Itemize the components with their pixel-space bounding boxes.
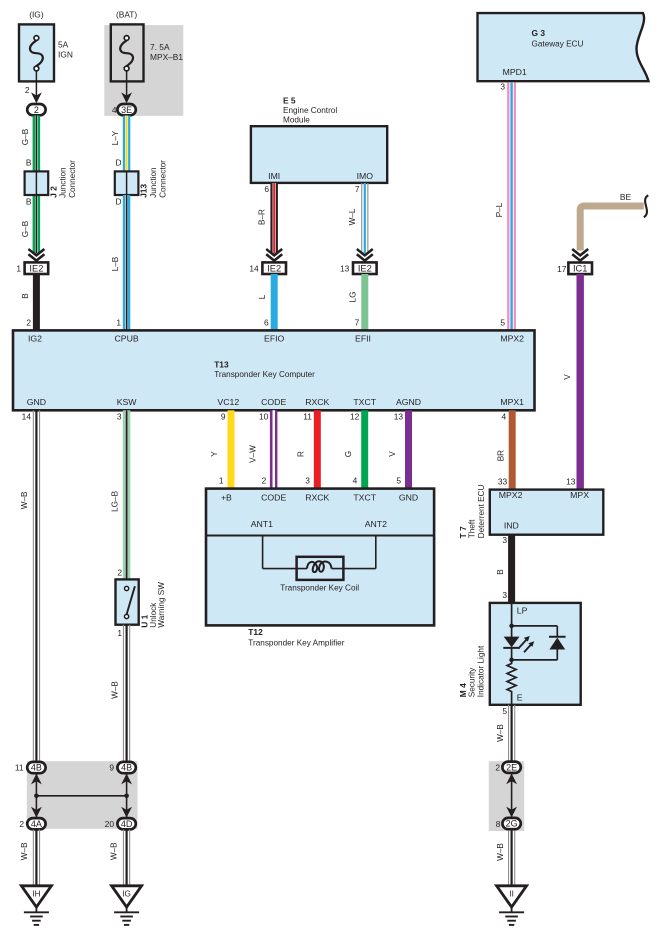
svg-text:2: 2 [117, 568, 122, 578]
svg-text:CPUB: CPUB [115, 333, 139, 343]
svg-text:W–B: W–B [20, 842, 29, 860]
svg-text:9: 9 [221, 412, 226, 422]
svg-text:J 2: J 2 [48, 186, 58, 198]
svg-text:Engine Control: Engine Control [283, 106, 337, 115]
svg-text:13: 13 [340, 263, 350, 273]
svg-text:5: 5 [502, 706, 507, 716]
svg-text:IND: IND [504, 521, 519, 531]
svg-text:Junction: Junction [149, 167, 158, 198]
svg-text:B–R: B–R [258, 209, 267, 225]
svg-text:2: 2 [26, 318, 31, 328]
svg-text:2E: 2E [506, 763, 517, 773]
svg-text:4A: 4A [31, 819, 42, 829]
svg-text:7: 7 [355, 184, 360, 194]
svg-text:12: 12 [350, 412, 360, 422]
svg-text:V: V [563, 374, 572, 380]
svg-text:5: 5 [500, 318, 505, 328]
svg-text:Connector: Connector [68, 160, 77, 198]
svg-text:E 5: E 5 [283, 95, 296, 105]
svg-text:MPX2: MPX2 [499, 490, 523, 500]
svg-text:10: 10 [259, 412, 269, 422]
svg-text:7: 7 [355, 318, 360, 328]
svg-text:T12: T12 [248, 627, 263, 637]
svg-text:33: 33 [498, 477, 508, 487]
svg-text:5: 5 [396, 475, 401, 485]
svg-text:G: G [344, 451, 353, 457]
svg-text:2: 2 [262, 475, 267, 485]
svg-text:L–Y: L–Y [111, 130, 120, 145]
svg-text:W–L: W–L [348, 208, 357, 225]
svg-text:ANT1: ANT1 [251, 519, 273, 529]
svg-text:Warning SW: Warning SW [157, 582, 166, 628]
svg-text:11: 11 [303, 412, 312, 422]
svg-text:T13: T13 [214, 360, 229, 370]
svg-text:D: D [115, 197, 121, 207]
svg-text:4D: 4D [121, 819, 133, 829]
svg-text:8: 8 [496, 819, 501, 829]
svg-text:L–B: L–B [111, 256, 120, 271]
svg-text:B: B [26, 197, 32, 207]
svg-text:IMO: IMO [357, 171, 374, 181]
svg-text:6: 6 [264, 184, 269, 194]
svg-text:17: 17 [557, 264, 567, 274]
svg-text:KSW: KSW [117, 397, 138, 407]
svg-text:(IG): (IG) [29, 10, 44, 20]
svg-text:GND: GND [399, 493, 418, 503]
svg-text:2: 2 [495, 762, 500, 772]
svg-text:2: 2 [34, 105, 39, 115]
svg-text:3E: 3E [121, 105, 132, 115]
svg-text:W–B: W–B [111, 681, 120, 699]
svg-text:Junction: Junction [59, 167, 68, 198]
svg-text:Deterrent ECU: Deterrent ECU [477, 485, 486, 539]
svg-text:Y: Y [210, 451, 219, 457]
svg-text:Security: Security [467, 667, 476, 697]
svg-text:7. 5A: 7. 5A [150, 42, 170, 52]
svg-text:W–B: W–B [110, 842, 119, 860]
svg-text:ANT2: ANT2 [365, 519, 387, 529]
svg-text:1: 1 [117, 628, 122, 638]
svg-text:5A: 5A [58, 40, 69, 50]
svg-text:W–B: W–B [496, 724, 505, 742]
svg-text:D: D [115, 157, 121, 167]
svg-text:1: 1 [116, 318, 121, 328]
svg-text:AGND: AGND [396, 397, 421, 407]
svg-text:E: E [517, 693, 523, 703]
svg-text:IG2: IG2 [28, 333, 42, 343]
svg-text:4: 4 [502, 412, 507, 422]
svg-text:B: B [496, 569, 505, 575]
svg-text:G–B: G–B [21, 220, 30, 237]
svg-text:BR: BR [497, 450, 506, 461]
svg-text:L: L [258, 294, 267, 299]
svg-text:14: 14 [22, 412, 32, 422]
svg-text:V: V [388, 451, 397, 457]
svg-text:2: 2 [19, 819, 24, 829]
svg-text:20: 20 [105, 819, 115, 829]
svg-text:IH: IH [32, 889, 40, 898]
svg-text:Transponder Key Coil: Transponder Key Coil [280, 583, 359, 592]
svg-text:V–W: V–W [248, 445, 257, 463]
svg-text:+B: +B [221, 493, 232, 503]
svg-text:MPD1: MPD1 [503, 67, 527, 77]
svg-text:IC1: IC1 [573, 263, 587, 273]
svg-text:Gateway ECU: Gateway ECU [532, 39, 584, 48]
svg-text:4: 4 [353, 475, 358, 485]
svg-text:W–B: W–B [496, 843, 505, 861]
svg-text:Transponder Key Amplifier: Transponder Key Amplifier [248, 639, 344, 648]
svg-text:Module: Module [283, 115, 310, 124]
svg-text:J13: J13 [138, 184, 148, 198]
svg-text:W–B: W–B [20, 491, 29, 509]
svg-text:LP: LP [517, 606, 528, 616]
svg-text:GND: GND [27, 397, 46, 407]
svg-text:G 3: G 3 [532, 28, 546, 38]
svg-text:TXCT: TXCT [353, 397, 376, 407]
svg-text:LG: LG [349, 292, 358, 303]
svg-text:II: II [509, 889, 514, 898]
svg-text:1: 1 [219, 475, 224, 485]
svg-text:13: 13 [394, 412, 404, 422]
svg-text:3: 3 [305, 475, 310, 485]
svg-text:IE2: IE2 [29, 263, 43, 273]
svg-text:3: 3 [117, 412, 122, 422]
svg-text:RXCK: RXCK [305, 397, 329, 407]
svg-text:9: 9 [109, 763, 114, 773]
svg-text:3: 3 [500, 82, 505, 92]
svg-text:CODE: CODE [261, 397, 286, 407]
svg-text:LG–B: LG–B [111, 490, 120, 511]
svg-text:2: 2 [25, 85, 30, 95]
svg-text:14: 14 [249, 263, 259, 273]
svg-text:BE: BE [620, 192, 632, 202]
svg-text:M 4: M 4 [458, 683, 468, 697]
svg-text:1: 1 [16, 263, 21, 273]
svg-text:3: 3 [502, 590, 507, 600]
svg-text:IE2: IE2 [267, 263, 281, 273]
svg-text:Transponder Key Computer: Transponder Key Computer [214, 370, 315, 379]
svg-text:EFII: EFII [355, 333, 371, 343]
svg-text:Connector: Connector [158, 160, 167, 198]
svg-text:IMI: IMI [268, 171, 280, 181]
svg-text:4B: 4B [121, 763, 132, 773]
svg-text:MPX1: MPX1 [500, 397, 524, 407]
svg-text:IG: IG [122, 889, 131, 898]
svg-text:B: B [26, 157, 32, 167]
svg-text:3: 3 [502, 535, 507, 545]
svg-text:B: B [21, 293, 30, 299]
svg-text:MPX: MPX [570, 490, 589, 500]
svg-text:13: 13 [566, 477, 576, 487]
svg-text:(BAT): (BAT) [116, 10, 137, 20]
svg-text:11: 11 [15, 763, 24, 773]
svg-text:R: R [297, 451, 306, 457]
svg-text:IE2: IE2 [358, 263, 372, 273]
svg-text:CODE: CODE [261, 493, 286, 503]
svg-text:Theft: Theft [468, 519, 477, 538]
svg-text:VC12: VC12 [217, 397, 239, 407]
svg-text:MPX–B1: MPX–B1 [150, 52, 183, 62]
svg-text:2G: 2G [506, 819, 518, 829]
svg-text:Indicator Light: Indicator Light [476, 645, 485, 697]
svg-text:RXCK: RXCK [305, 493, 329, 503]
svg-text:IGN: IGN [58, 50, 73, 60]
svg-text:4B: 4B [31, 763, 42, 773]
svg-text:G–B: G–B [21, 128, 30, 145]
svg-text:MPX2: MPX2 [500, 333, 524, 343]
svg-text:TXCT: TXCT [353, 493, 376, 503]
svg-text:EFIO: EFIO [264, 333, 285, 343]
svg-text:6: 6 [264, 318, 269, 328]
svg-text:P–L: P–L [495, 202, 504, 217]
